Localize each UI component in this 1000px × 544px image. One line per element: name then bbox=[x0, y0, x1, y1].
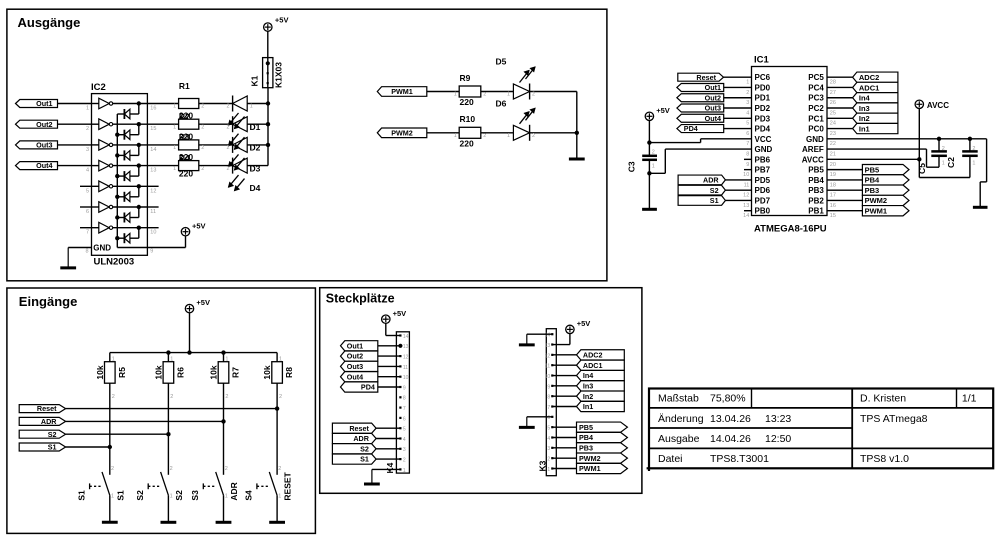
svg-text:Out1: Out1 bbox=[347, 341, 363, 350]
svg-text:4: 4 bbox=[746, 110, 749, 116]
svg-text:15: 15 bbox=[830, 213, 836, 219]
svg-text:D3: D3 bbox=[250, 163, 261, 173]
svg-text:D4: D4 bbox=[250, 183, 261, 193]
svg-text:S2: S2 bbox=[174, 490, 184, 501]
svg-text:S1: S1 bbox=[360, 455, 369, 464]
svg-text:PB5: PB5 bbox=[579, 423, 593, 432]
svg-text:2: 2 bbox=[279, 394, 282, 400]
svg-text:ADR: ADR bbox=[229, 482, 239, 500]
svg-text:PB6: PB6 bbox=[755, 155, 771, 164]
svg-text:Änderung: Änderung bbox=[658, 413, 704, 425]
svg-text:2: 2 bbox=[225, 394, 228, 400]
svg-text:TPS8.T3001: TPS8.T3001 bbox=[710, 453, 769, 465]
svg-text:10: 10 bbox=[403, 375, 409, 381]
svg-text:PB3: PB3 bbox=[865, 186, 880, 195]
svg-text:20: 20 bbox=[830, 162, 836, 168]
svg-text:2: 2 bbox=[170, 466, 173, 472]
svg-text:K1: K1 bbox=[249, 75, 259, 86]
svg-text:In2: In2 bbox=[859, 114, 870, 123]
svg-text:ULN2003: ULN2003 bbox=[94, 256, 135, 267]
svg-text:ADR: ADR bbox=[703, 176, 719, 185]
svg-text:R7: R7 bbox=[231, 367, 241, 378]
svg-text:K3: K3 bbox=[538, 460, 548, 471]
svg-text:In4: In4 bbox=[583, 371, 593, 380]
svg-text:5: 5 bbox=[746, 121, 749, 127]
svg-text:10k: 10k bbox=[153, 365, 163, 379]
svg-text:6: 6 bbox=[403, 416, 406, 422]
svg-text:PB5: PB5 bbox=[865, 165, 880, 174]
svg-text:S2: S2 bbox=[135, 490, 145, 501]
svg-text:1: 1 bbox=[86, 106, 89, 112]
svg-text:PC4: PC4 bbox=[808, 83, 824, 92]
svg-text:PWM2: PWM2 bbox=[865, 196, 888, 205]
svg-text:PC0: PC0 bbox=[808, 125, 824, 134]
svg-text:1: 1 bbox=[746, 80, 749, 86]
svg-text:IC1: IC1 bbox=[754, 55, 770, 66]
svg-text:2: 2 bbox=[111, 466, 114, 472]
svg-text:8: 8 bbox=[403, 396, 406, 402]
svg-text:PB1: PB1 bbox=[808, 207, 824, 216]
svg-text:1: 1 bbox=[942, 161, 945, 167]
svg-text:PD6: PD6 bbox=[755, 186, 771, 195]
svg-text:3: 3 bbox=[547, 446, 550, 452]
svg-text:18: 18 bbox=[830, 182, 836, 188]
svg-text:6: 6 bbox=[746, 131, 749, 137]
svg-text:2: 2 bbox=[483, 92, 486, 98]
svg-text:S1: S1 bbox=[115, 490, 125, 501]
svg-text:14.04.26: 14.04.26 bbox=[710, 433, 751, 445]
svg-text:D5: D5 bbox=[496, 57, 507, 67]
svg-text:1: 1 bbox=[507, 133, 510, 139]
svg-text:11: 11 bbox=[545, 364, 550, 370]
svg-text:3: 3 bbox=[403, 447, 406, 453]
svg-text:Reset: Reset bbox=[349, 424, 369, 433]
svg-text:S2: S2 bbox=[710, 186, 719, 195]
svg-text:220: 220 bbox=[179, 131, 193, 141]
svg-text:2: 2 bbox=[483, 133, 486, 139]
svg-text:+5V: +5V bbox=[192, 222, 206, 231]
svg-text:PD5: PD5 bbox=[755, 176, 771, 185]
svg-text:+5V: +5V bbox=[196, 298, 210, 307]
svg-text:1: 1 bbox=[170, 357, 173, 363]
svg-text:1: 1 bbox=[250, 104, 253, 110]
svg-text:14: 14 bbox=[150, 147, 156, 153]
svg-text:PC5: PC5 bbox=[808, 73, 824, 82]
svg-text:3: 3 bbox=[746, 100, 749, 106]
svg-text:10: 10 bbox=[545, 374, 551, 380]
svg-text:Out4: Out4 bbox=[705, 114, 721, 123]
svg-text:220: 220 bbox=[179, 169, 193, 179]
svg-text:8: 8 bbox=[547, 395, 550, 401]
svg-text:1: 1 bbox=[547, 467, 550, 473]
svg-text:Out4: Out4 bbox=[347, 372, 363, 381]
svg-text:3: 3 bbox=[86, 147, 89, 153]
svg-text:1: 1 bbox=[225, 357, 228, 363]
svg-text:9: 9 bbox=[746, 162, 749, 168]
svg-text:Out2: Out2 bbox=[705, 93, 721, 102]
svg-text:In2: In2 bbox=[583, 392, 593, 401]
svg-text:27: 27 bbox=[830, 90, 836, 96]
svg-text:1: 1 bbox=[454, 92, 457, 98]
svg-text:VCC: VCC bbox=[755, 135, 772, 144]
svg-text:9: 9 bbox=[403, 385, 406, 391]
svg-text:75,80%: 75,80% bbox=[710, 393, 746, 405]
svg-text:PWM1: PWM1 bbox=[579, 464, 601, 473]
svg-text:PB4: PB4 bbox=[579, 433, 593, 442]
svg-text:ADR: ADR bbox=[353, 434, 369, 443]
svg-text:2: 2 bbox=[942, 146, 945, 152]
svg-text:8: 8 bbox=[85, 248, 88, 254]
svg-text:+5V: +5V bbox=[393, 309, 407, 318]
svg-text:12:50: 12:50 bbox=[765, 433, 791, 445]
svg-text:10k: 10k bbox=[262, 365, 272, 379]
svg-text:4: 4 bbox=[86, 168, 89, 174]
svg-text:1: 1 bbox=[279, 357, 282, 363]
svg-text:PC1: PC1 bbox=[808, 114, 824, 123]
svg-text:C5: C5 bbox=[917, 163, 927, 174]
svg-text:Steckplätze: Steckplätze bbox=[326, 292, 395, 306]
svg-text:PWM1: PWM1 bbox=[865, 207, 888, 216]
svg-text:21: 21 bbox=[830, 151, 836, 157]
svg-text:24: 24 bbox=[830, 121, 836, 127]
svg-text:S2: S2 bbox=[360, 444, 369, 453]
svg-text:2: 2 bbox=[112, 394, 115, 400]
svg-text:D1: D1 bbox=[250, 122, 261, 132]
svg-text:PB4: PB4 bbox=[808, 176, 824, 185]
svg-text:PD4: PD4 bbox=[361, 383, 375, 392]
svg-text:1: 1 bbox=[111, 494, 114, 500]
svg-text:Maßstab: Maßstab bbox=[658, 393, 699, 405]
svg-text:220: 220 bbox=[179, 152, 193, 162]
svg-text:11: 11 bbox=[744, 182, 750, 188]
svg-text:PD2: PD2 bbox=[755, 104, 771, 113]
svg-text:ADC1: ADC1 bbox=[859, 83, 879, 92]
svg-text:15: 15 bbox=[150, 126, 156, 132]
svg-text:14: 14 bbox=[403, 334, 409, 340]
svg-text:13: 13 bbox=[150, 168, 156, 174]
svg-text:5: 5 bbox=[86, 188, 89, 194]
svg-text:1: 1 bbox=[173, 104, 176, 110]
svg-text:26: 26 bbox=[830, 100, 836, 106]
svg-text:2: 2 bbox=[226, 124, 229, 130]
svg-text:13: 13 bbox=[403, 344, 409, 350]
svg-text:1: 1 bbox=[972, 161, 975, 167]
svg-text:PB5: PB5 bbox=[808, 166, 824, 175]
svg-text:1: 1 bbox=[278, 494, 281, 500]
svg-text:R6: R6 bbox=[175, 367, 185, 378]
svg-text:S2: S2 bbox=[48, 430, 57, 439]
svg-text:S3: S3 bbox=[190, 490, 200, 501]
svg-text:ADC1: ADC1 bbox=[583, 361, 603, 370]
svg-text:9: 9 bbox=[150, 248, 153, 254]
svg-text:2: 2 bbox=[226, 104, 229, 110]
svg-text:16: 16 bbox=[830, 203, 836, 209]
svg-text:2: 2 bbox=[201, 104, 204, 110]
svg-text:K1X03: K1X03 bbox=[274, 62, 284, 88]
svg-text:Ausgabe: Ausgabe bbox=[658, 433, 700, 445]
svg-text:22: 22 bbox=[830, 141, 836, 147]
svg-text:ATMEGA8-16PU: ATMEGA8-16PU bbox=[754, 224, 827, 235]
svg-text:IC2: IC2 bbox=[91, 82, 106, 93]
svg-text:2: 2 bbox=[201, 166, 204, 172]
svg-text:2: 2 bbox=[201, 145, 204, 151]
svg-text:Eingänge: Eingänge bbox=[19, 294, 78, 309]
svg-text:2: 2 bbox=[201, 124, 204, 130]
svg-text:2: 2 bbox=[532, 133, 535, 139]
svg-text:S1: S1 bbox=[48, 443, 57, 452]
svg-text:R10: R10 bbox=[460, 114, 476, 124]
svg-text:16: 16 bbox=[150, 106, 156, 112]
svg-text:In4: In4 bbox=[859, 94, 871, 103]
svg-text:1: 1 bbox=[112, 357, 115, 363]
svg-text:12: 12 bbox=[545, 353, 551, 359]
svg-text:7: 7 bbox=[746, 141, 749, 147]
svg-text:2: 2 bbox=[226, 166, 229, 172]
svg-text:4: 4 bbox=[547, 436, 550, 442]
svg-text:R8: R8 bbox=[284, 367, 294, 378]
svg-text:Out2: Out2 bbox=[347, 352, 363, 361]
svg-text:14: 14 bbox=[743, 213, 749, 219]
svg-text:1: 1 bbox=[173, 145, 176, 151]
svg-text:4: 4 bbox=[403, 437, 406, 443]
svg-text:11: 11 bbox=[150, 209, 156, 215]
svg-text:23: 23 bbox=[830, 131, 836, 137]
svg-text:9: 9 bbox=[547, 384, 550, 390]
svg-text:1: 1 bbox=[507, 92, 510, 98]
svg-text:GND: GND bbox=[93, 243, 111, 252]
svg-text:S1: S1 bbox=[76, 490, 86, 501]
svg-text:5: 5 bbox=[403, 427, 406, 433]
svg-text:GND: GND bbox=[806, 135, 824, 144]
svg-text:2: 2 bbox=[86, 126, 89, 132]
svg-text:PC3: PC3 bbox=[808, 94, 824, 103]
svg-text:GND: GND bbox=[755, 145, 773, 154]
svg-text:5: 5 bbox=[547, 426, 550, 432]
svg-text:AVCC: AVCC bbox=[927, 101, 949, 110]
svg-text:R9: R9 bbox=[460, 73, 471, 83]
svg-text:11: 11 bbox=[403, 365, 408, 371]
svg-text:TPS8 v1.0: TPS8 v1.0 bbox=[860, 453, 909, 465]
svg-text:In3: In3 bbox=[859, 104, 870, 113]
svg-text:17: 17 bbox=[830, 193, 836, 199]
svg-text:2: 2 bbox=[403, 458, 406, 464]
svg-text:1: 1 bbox=[225, 494, 228, 500]
svg-text:2: 2 bbox=[972, 146, 975, 152]
svg-text:10: 10 bbox=[743, 172, 749, 178]
svg-text:220: 220 bbox=[179, 111, 193, 121]
svg-text:AREF: AREF bbox=[802, 145, 824, 154]
svg-text:10: 10 bbox=[150, 230, 156, 236]
svg-text:RESET: RESET bbox=[283, 471, 293, 500]
svg-text:1: 1 bbox=[170, 494, 173, 500]
svg-text:13.04.26: 13.04.26 bbox=[710, 413, 751, 425]
svg-text:12: 12 bbox=[743, 193, 749, 199]
svg-text:R5: R5 bbox=[117, 367, 127, 378]
svg-text:R1: R1 bbox=[179, 81, 190, 91]
svg-text:19: 19 bbox=[830, 172, 836, 178]
svg-text:10k: 10k bbox=[209, 365, 219, 379]
svg-text:Ausgänge: Ausgänge bbox=[18, 15, 81, 30]
svg-text:In3: In3 bbox=[583, 381, 593, 390]
svg-text:7: 7 bbox=[86, 230, 89, 236]
svg-text:10k: 10k bbox=[95, 365, 105, 379]
svg-text:13: 13 bbox=[545, 343, 551, 349]
svg-text:13:23: 13:23 bbox=[765, 413, 791, 425]
svg-text:D6: D6 bbox=[496, 99, 507, 109]
svg-text:Out4: Out4 bbox=[36, 161, 52, 170]
svg-text:PWM2: PWM2 bbox=[391, 128, 413, 137]
svg-text:C2: C2 bbox=[946, 157, 956, 168]
svg-text:PD0: PD0 bbox=[755, 83, 771, 92]
svg-text:+5V: +5V bbox=[275, 16, 289, 25]
svg-text:2: 2 bbox=[652, 149, 655, 155]
svg-text:Datei: Datei bbox=[658, 453, 683, 465]
svg-text:S4: S4 bbox=[244, 490, 254, 501]
svg-text:Out1: Out1 bbox=[705, 83, 721, 92]
svg-text:ADC2: ADC2 bbox=[859, 73, 879, 82]
svg-text:220: 220 bbox=[460, 138, 474, 148]
svg-text:13: 13 bbox=[743, 203, 749, 209]
svg-text:1: 1 bbox=[652, 163, 655, 169]
svg-text:PD4: PD4 bbox=[684, 124, 698, 133]
svg-text:12: 12 bbox=[150, 188, 156, 194]
svg-text:6: 6 bbox=[86, 209, 89, 215]
svg-text:D. Kristen: D. Kristen bbox=[860, 393, 906, 405]
svg-text:2: 2 bbox=[278, 466, 281, 472]
svg-text:PD4: PD4 bbox=[755, 125, 771, 134]
svg-text:12: 12 bbox=[403, 355, 409, 361]
svg-text:PB4: PB4 bbox=[865, 176, 880, 185]
svg-text:PB0: PB0 bbox=[755, 207, 771, 216]
svg-text:1: 1 bbox=[454, 133, 457, 139]
svg-text:1: 1 bbox=[403, 468, 406, 474]
svg-text:Out2: Out2 bbox=[36, 120, 52, 129]
svg-text:+5V: +5V bbox=[577, 319, 591, 328]
svg-text:7: 7 bbox=[547, 405, 550, 411]
svg-text:PB2: PB2 bbox=[808, 196, 824, 205]
svg-text:PD3: PD3 bbox=[755, 114, 771, 123]
svg-text:8: 8 bbox=[746, 151, 749, 157]
svg-text:Out1: Out1 bbox=[36, 99, 52, 108]
svg-text:Out3: Out3 bbox=[705, 104, 721, 113]
svg-text:2: 2 bbox=[547, 457, 550, 463]
svg-text:25: 25 bbox=[830, 110, 836, 116]
svg-text:ADR: ADR bbox=[41, 417, 57, 426]
svg-text:Out3: Out3 bbox=[347, 362, 363, 371]
svg-text:PWM2: PWM2 bbox=[579, 454, 601, 463]
svg-text:In1: In1 bbox=[583, 402, 593, 411]
svg-text:7: 7 bbox=[403, 406, 406, 412]
svg-text:In1: In1 bbox=[859, 124, 870, 133]
svg-text:2: 2 bbox=[746, 90, 749, 96]
svg-text:2: 2 bbox=[226, 145, 229, 151]
svg-text:Out3: Out3 bbox=[36, 141, 52, 150]
svg-text:2: 2 bbox=[225, 466, 228, 472]
svg-text:1/1: 1/1 bbox=[962, 393, 977, 405]
svg-text:C3: C3 bbox=[626, 161, 636, 172]
svg-text:PD1: PD1 bbox=[755, 94, 771, 103]
svg-text:TPS ATmega8: TPS ATmega8 bbox=[860, 413, 928, 425]
svg-text:220: 220 bbox=[460, 97, 474, 107]
svg-text:D2: D2 bbox=[250, 143, 261, 153]
svg-text:PB7: PB7 bbox=[755, 166, 771, 175]
svg-text:+5V: +5V bbox=[656, 106, 670, 115]
svg-text:PB3: PB3 bbox=[808, 186, 824, 195]
svg-text:1: 1 bbox=[173, 124, 176, 130]
svg-text:PB3: PB3 bbox=[579, 443, 593, 452]
svg-text:AVCC: AVCC bbox=[802, 155, 824, 164]
svg-text:PD7: PD7 bbox=[755, 196, 771, 205]
svg-text:28: 28 bbox=[830, 80, 836, 86]
svg-text:1: 1 bbox=[173, 166, 176, 172]
svg-text:K4: K4 bbox=[385, 462, 395, 473]
svg-text:Reset: Reset bbox=[696, 73, 716, 82]
svg-text:2: 2 bbox=[532, 92, 535, 98]
svg-text:PC2: PC2 bbox=[808, 104, 824, 113]
svg-text:2: 2 bbox=[170, 394, 173, 400]
svg-text:Reset: Reset bbox=[37, 404, 57, 413]
svg-text:PWM1: PWM1 bbox=[391, 87, 413, 96]
svg-text:ADC2: ADC2 bbox=[583, 350, 603, 359]
svg-text:PC6: PC6 bbox=[755, 73, 771, 82]
svg-text:S1: S1 bbox=[710, 196, 719, 205]
